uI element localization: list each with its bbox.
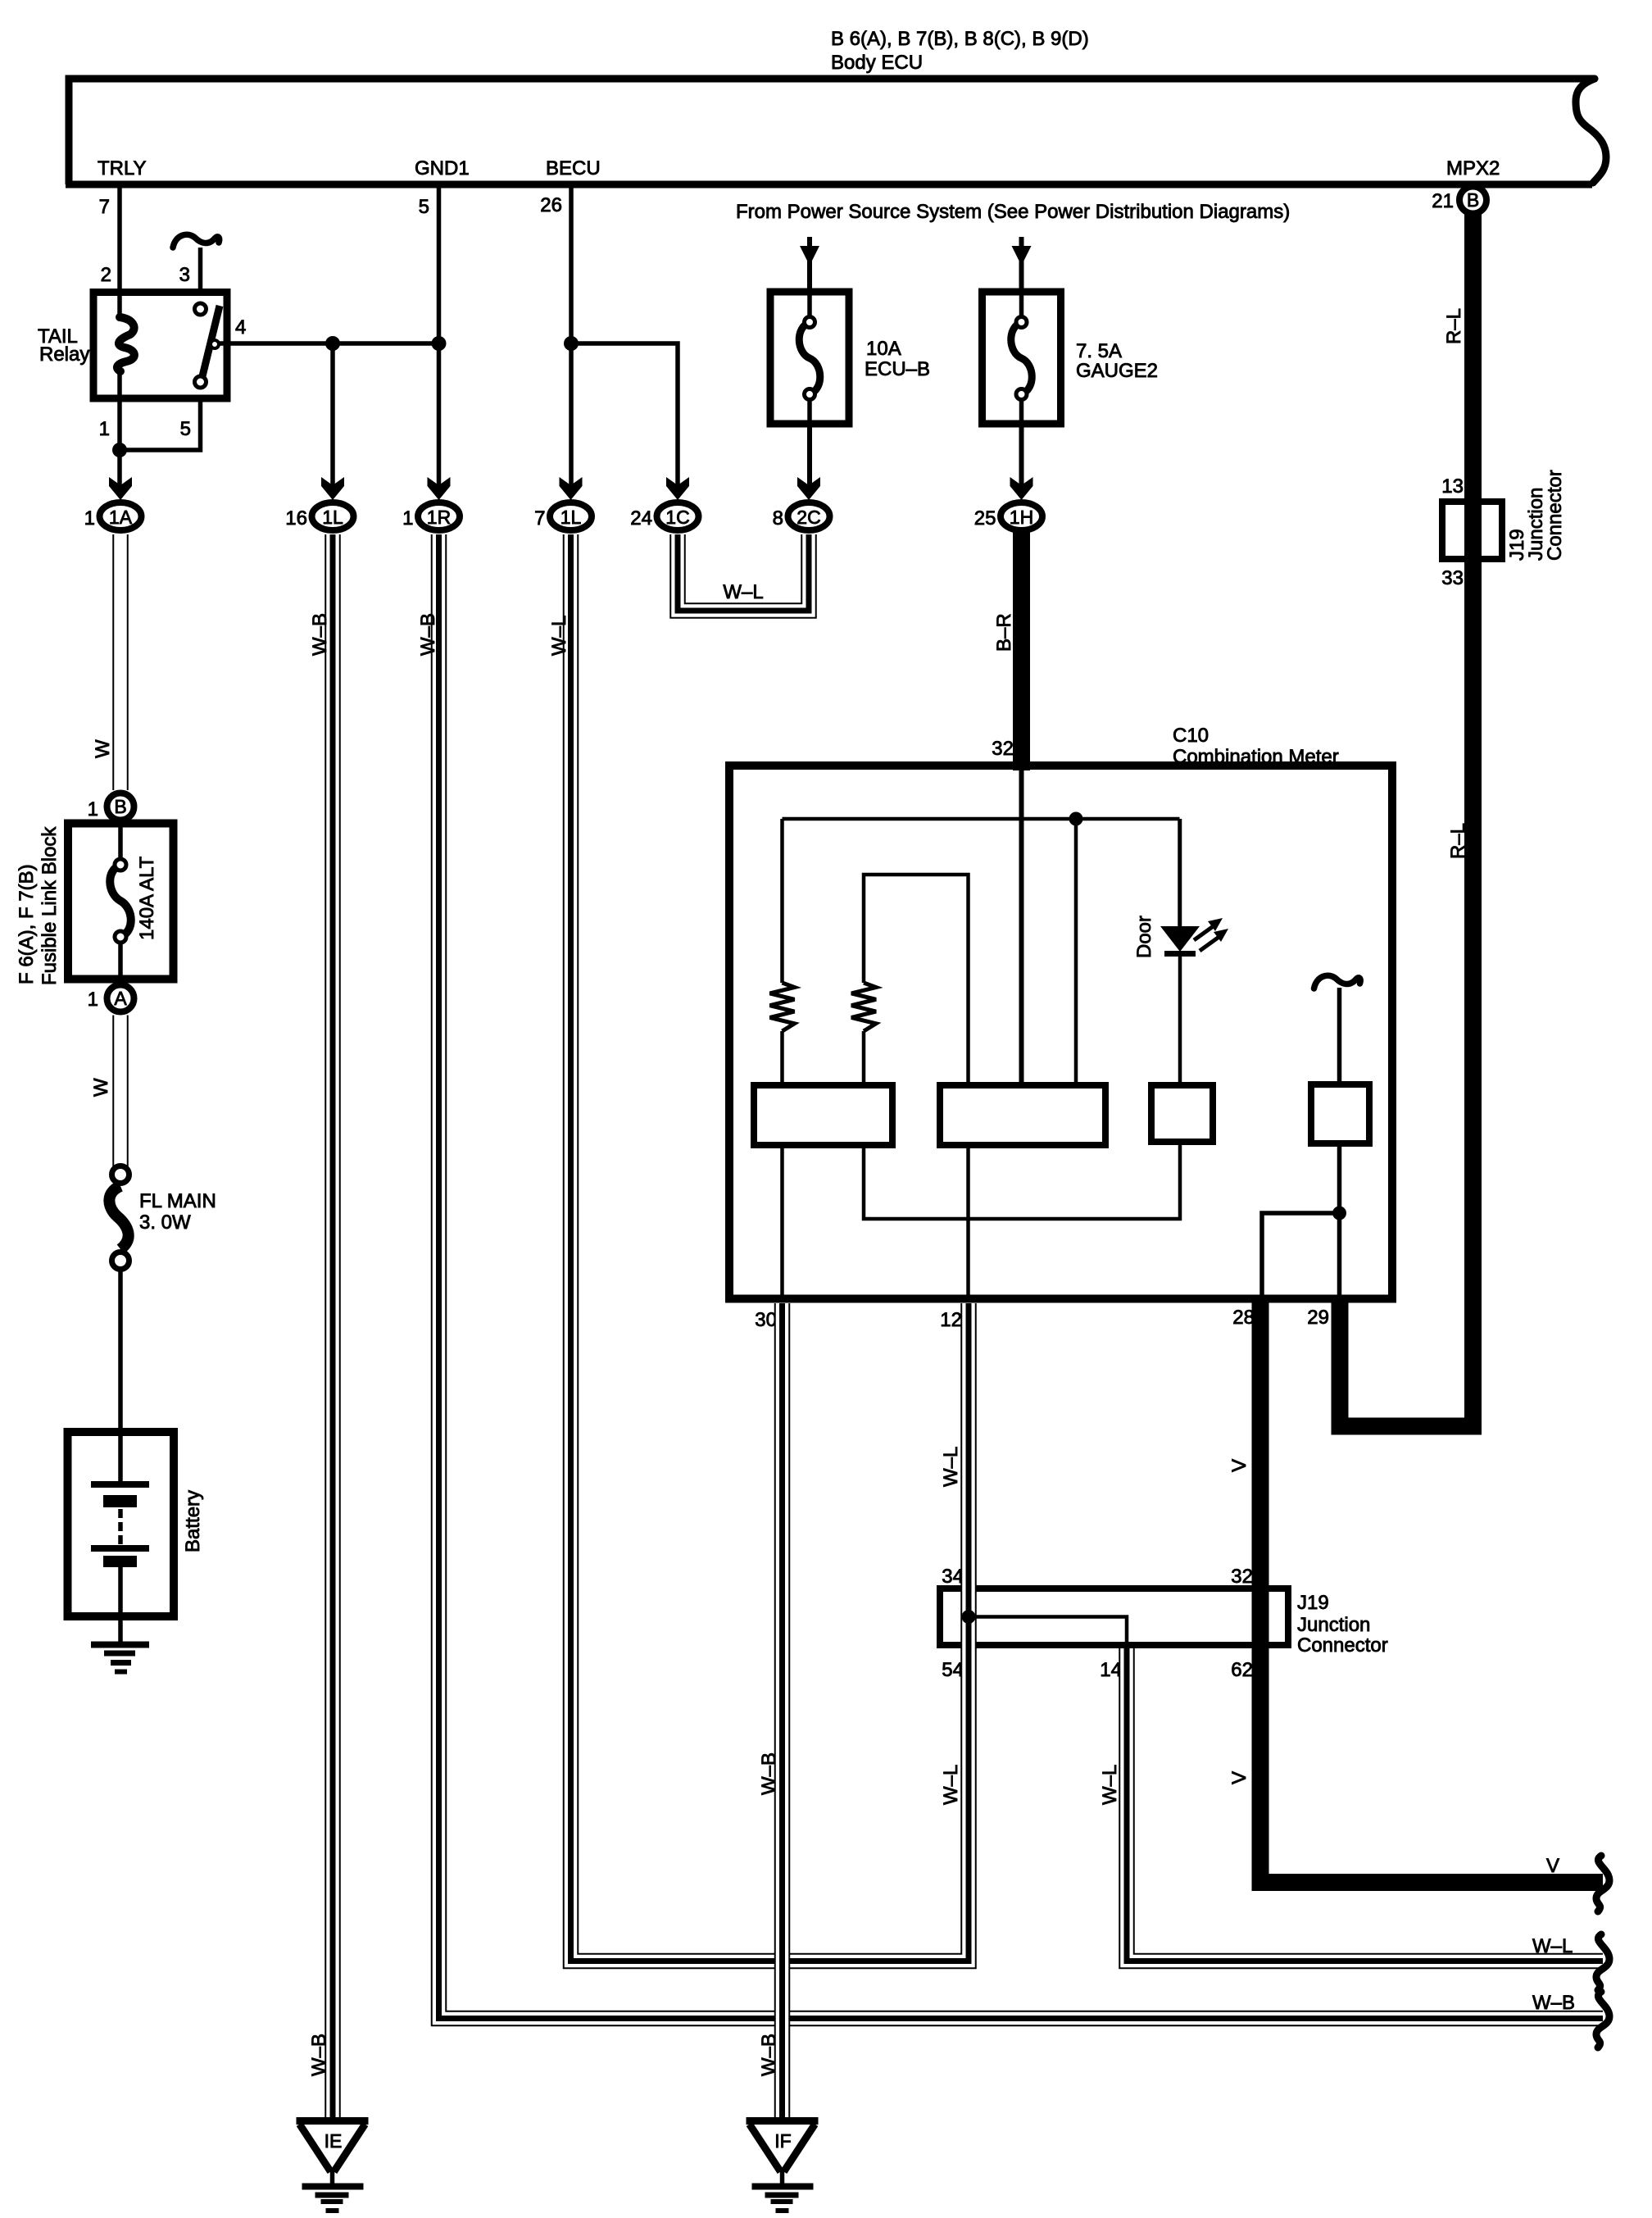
svg-text:W–B: W–B (308, 2034, 330, 2076)
svg-text:1: 1 (88, 798, 98, 820)
svg-text:TRLY: TRLY (98, 157, 147, 180)
svg-text:1: 1 (99, 418, 110, 440)
svg-text:1L: 1L (560, 507, 582, 528)
svg-text:1C: 1C (665, 507, 689, 528)
svg-text:W–B: W–B (417, 613, 439, 656)
svg-text:62: 62 (1231, 1659, 1253, 1681)
svg-text:BECU: BECU (546, 157, 601, 180)
svg-text:W–L: W–L (940, 1447, 962, 1487)
svg-text:From Power Source System (See: From Power Source System (See Power Dist… (736, 201, 1290, 223)
svg-text:2C: 2C (796, 507, 820, 528)
svg-text:W–L: W–L (940, 1765, 962, 1805)
svg-text:Body ECU: Body ECU (831, 52, 923, 74)
svg-text:W–B: W–B (758, 1752, 780, 1795)
svg-text:5: 5 (180, 418, 191, 440)
svg-text:25: 25 (974, 507, 996, 530)
svg-text:1L: 1L (322, 507, 343, 528)
svg-text:1R: 1R (427, 507, 451, 528)
svg-text:W: W (90, 1078, 112, 1097)
svg-text:IE: IE (324, 2130, 343, 2152)
svg-text:Connector: Connector (1544, 470, 1566, 561)
svg-text:C10: C10 (1173, 725, 1209, 747)
svg-text:V: V (1546, 1855, 1559, 1877)
svg-text:10A: 10A (866, 338, 901, 360)
svg-text:21: 21 (1432, 190, 1454, 212)
svg-text:8: 8 (773, 507, 783, 530)
svg-text:B 6(A), B 7(B), B 8(C), B 9(D): B 6(A), B 7(B), B 8(C), B 9(D) (831, 28, 1089, 50)
svg-text:54: 54 (942, 1659, 964, 1681)
svg-text:GAUGE2: GAUGE2 (1076, 360, 1158, 382)
svg-text:12: 12 (940, 1309, 962, 1331)
svg-text:B–R: B–R (993, 613, 1015, 652)
svg-text:Battery: Battery (182, 1490, 204, 1552)
svg-text:1H: 1H (1010, 507, 1033, 528)
svg-text:1: 1 (84, 507, 95, 530)
svg-text:24: 24 (630, 507, 652, 530)
svg-text:W–L: W–L (548, 616, 570, 656)
svg-text:W–L: W–L (1532, 1935, 1573, 1957)
svg-text:28: 28 (1232, 1307, 1255, 1329)
svg-text:V: V (1228, 1771, 1250, 1784)
svg-text:1: 1 (402, 507, 413, 530)
svg-text:Combination Meter: Combination Meter (1173, 746, 1339, 768)
svg-text:7: 7 (99, 196, 110, 218)
svg-text:W–B: W–B (309, 613, 331, 656)
svg-text:B: B (114, 796, 126, 817)
svg-text:29: 29 (1307, 1307, 1329, 1329)
svg-text:IF: IF (774, 2130, 791, 2152)
svg-text:32: 32 (1231, 1566, 1253, 1588)
svg-text:R–L: R–L (1447, 823, 1469, 859)
svg-text:W–B: W–B (758, 2034, 780, 2076)
svg-text:34: 34 (942, 1566, 964, 1588)
svg-text:W–L: W–L (723, 581, 763, 603)
svg-text:MPX2: MPX2 (1446, 157, 1500, 180)
svg-text:Connector: Connector (1297, 1634, 1388, 1657)
svg-text:3. 0W: 3. 0W (139, 1211, 191, 1234)
svg-text:16: 16 (285, 507, 307, 530)
svg-text:FL MAIN: FL MAIN (139, 1190, 216, 1212)
svg-text:W–L: W–L (1099, 1765, 1121, 1805)
svg-text:14: 14 (1100, 1659, 1122, 1681)
svg-text:Fusible Link Block: Fusible Link Block (39, 826, 61, 985)
svg-text:4: 4 (235, 316, 246, 339)
svg-text:32: 32 (992, 738, 1014, 760)
svg-text:Relay: Relay (39, 343, 89, 366)
svg-text:B: B (1467, 189, 1479, 211)
svg-text:J19: J19 (1297, 1592, 1329, 1614)
svg-text:R–L: R–L (1443, 308, 1465, 344)
svg-text:W–B: W–B (1532, 1992, 1575, 2014)
svg-text:2: 2 (101, 264, 111, 286)
svg-text:5: 5 (419, 196, 429, 218)
svg-text:GND1: GND1 (415, 157, 470, 180)
svg-text:140A ALT: 140A ALT (136, 856, 158, 940)
svg-text:26: 26 (540, 194, 562, 216)
svg-text:1: 1 (88, 989, 98, 1011)
svg-text:33: 33 (1441, 567, 1464, 589)
svg-text:7: 7 (534, 507, 545, 530)
svg-text:1A: 1A (109, 507, 133, 528)
svg-text:3: 3 (179, 264, 190, 286)
svg-text:Junction: Junction (1297, 1614, 1370, 1636)
svg-text:13: 13 (1441, 475, 1464, 498)
svg-text:W: W (92, 739, 114, 758)
svg-text:F 6(A), F 7(B): F 6(A), F 7(B) (16, 864, 38, 984)
svg-text:30: 30 (755, 1309, 777, 1331)
svg-text:A: A (114, 988, 127, 1009)
svg-text:7. 5A: 7. 5A (1076, 340, 1122, 362)
svg-text:V: V (1228, 1459, 1250, 1472)
svg-text:Door: Door (1133, 916, 1155, 958)
svg-text:ECU–B: ECU–B (865, 358, 930, 380)
